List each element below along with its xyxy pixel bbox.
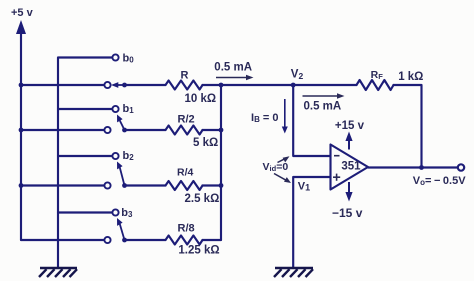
svg-text:RF: RF [371,69,384,81]
svg-text:R: R [181,70,189,82]
svg-text:+15 v: +15 v [335,120,365,132]
svg-text:1 kΩ: 1 kΩ [398,71,423,83]
svg-text:b0: b0 [123,53,135,65]
svg-text:0.5 mA: 0.5 mA [304,101,342,113]
svg-text:10 kΩ: 10 kΩ [185,93,217,105]
svg-text:Vid=0: Vid=0 [263,161,289,173]
svg-text:5 kΩ: 5 kΩ [193,137,218,149]
svg-text:2.5 kΩ: 2.5 kΩ [185,193,220,205]
svg-text:0.5 mA: 0.5 mA [214,62,252,74]
svg-text:R/4: R/4 [177,166,194,178]
svg-text:−15 v: −15 v [332,206,363,220]
svg-text:b2: b2 [123,150,135,162]
svg-text:IB = 0: IB = 0 [251,112,279,124]
svg-text:V2: V2 [291,69,304,82]
svg-text:b3: b3 [121,207,133,219]
svg-text:1.25 kΩ: 1.25 kΩ [178,245,219,257]
svg-text:Vo=−0.5V: Vo=−0.5V [413,175,466,187]
svg-text:b1: b1 [123,103,135,115]
svg-text:+5 v: +5 v [11,7,34,19]
svg-text:R/8: R/8 [178,223,195,235]
svg-text:351: 351 [341,161,361,173]
svg-text:V1: V1 [298,180,310,192]
svg-text:R/2: R/2 [178,114,195,126]
